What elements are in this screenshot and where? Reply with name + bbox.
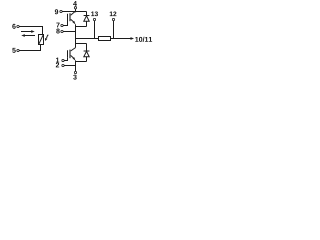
wire thermistor bottom to pin5 [19,45,40,51]
transfer arrow left [21,34,35,37]
IGBT Q1 gate bar [67,14,69,21]
wire pin2 to lower emitter [64,65,75,67]
diode D1 cathode bar [84,15,90,17]
terminal 8 label [56,29,59,34]
terminal 2 label [56,63,59,68]
diode D1 anode lead [86,21,88,26]
terminal 1 circle [62,59,64,61]
terminal 9 circle [60,10,62,12]
terminal 3 label [73,75,76,80]
terminal 2 circle [62,64,64,66]
diode D2 triangle [84,51,89,57]
terminal 1 label [56,58,59,63]
diode D2 cathode bar [84,50,90,52]
output arrowhead [131,37,135,40]
wire shunt to output terminal [111,38,132,40]
wire pin7 to upper gate [63,21,67,26]
terminal 6 label [12,24,15,29]
wire pin13 to shunt left [94,21,96,39]
wire D1 anode to emitter node [76,26,87,28]
wire pin4 down to rail [75,9,77,12]
IGBT Q2 collector stroke [71,48,76,51]
thermistor R(T) box [39,35,44,45]
wire pin8 to upper emitter node [63,31,75,33]
terminal 12 label [110,11,117,16]
terminal 13 circle [93,18,95,20]
IGBT Q1 emitter stroke [71,19,75,22]
terminal 6 circle [17,25,19,27]
wire pin12 to shunt right [113,21,115,39]
IGBT Q1 body bar [69,13,71,21]
terminal 4 circle [74,7,76,9]
IGBT Q2 gate bar [67,50,69,58]
IGBT Q1 collector stroke [71,12,75,16]
output wire to shunt [76,38,99,40]
emitter node vertical Q1 to Q2 [75,24,77,47]
terminal 8 circle [61,30,63,32]
terminal 7 label [56,23,59,28]
terminal 4 label [73,1,77,6]
transfer arrow right [21,30,35,33]
IGBT Q1 emitter arrowhead [73,21,76,25]
diode D2 cathode lead [86,44,88,52]
IGBT Q2 emitter arrowhead [73,57,76,61]
terminal 10/11 label [135,37,152,42]
terminal 13 label [91,11,98,16]
thermistor diagonal [39,35,43,44]
wire pin6 to thermistor top [19,27,42,35]
wire pin9 / top collector rail [62,11,86,13]
lower collector rail [76,43,87,45]
terminal 9 label [55,9,58,14]
shunt resistor body [99,37,111,41]
diode D2 anode lead [86,57,88,62]
IGBT Q2 body bar [69,50,71,59]
terminal 3 circle [74,71,76,73]
IGBT Q2 emitter stroke [71,55,75,58]
terminal 5 label [12,48,15,53]
terminal 12 circle [112,18,114,20]
junction dot pin4/rail [75,11,77,13]
Q2 emitter vertical to pin3 [75,61,77,72]
terminal 7 circle [61,24,63,26]
diode D1 cathode lead [86,12,88,16]
diode D1 triangle [84,16,89,21]
wire pin1 to lower gate [64,58,67,61]
temperature arrow [45,35,49,41]
terminal 5 circle [17,49,19,51]
wire D2 anode to emitter node [76,61,87,63]
